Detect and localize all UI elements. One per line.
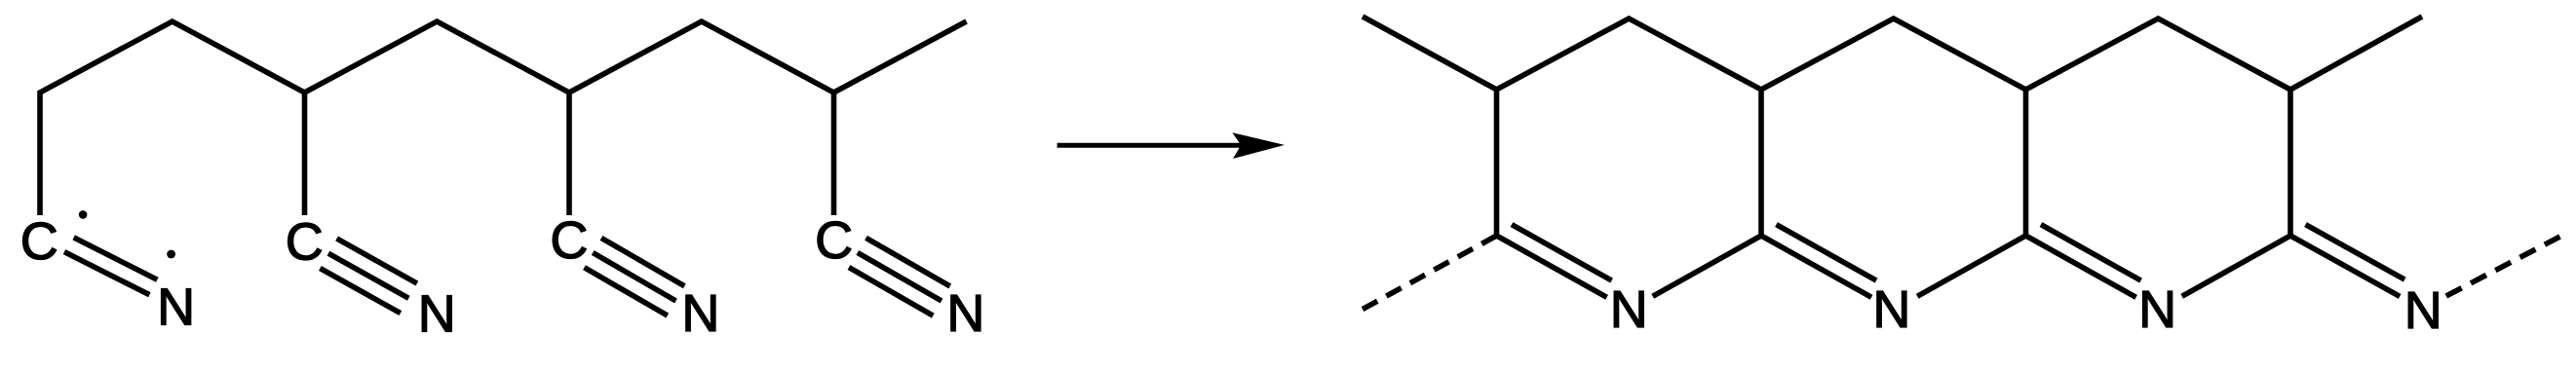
C2#N2 triple bond xyxy=(320,239,417,314)
ring verticals xyxy=(1497,90,2291,236)
C3#N3 triple bond xyxy=(585,238,685,315)
svg-text:C: C xyxy=(20,212,58,271)
arrow xyxy=(1057,132,1285,159)
svg-text:N: N xyxy=(1872,280,1910,339)
svg-text:N: N xyxy=(2404,281,2442,340)
ring3 N-C single xyxy=(2182,236,2290,296)
svg-text:N: N xyxy=(1610,280,1648,339)
radical dots xyxy=(79,210,88,219)
ring3 C=N double xyxy=(2026,225,2141,298)
svg-text:N: N xyxy=(2138,280,2176,339)
atom labels xyxy=(20,211,2442,343)
left dashed bond xyxy=(1363,236,1497,310)
ring2 C=N double xyxy=(1761,225,1876,298)
left backbone xyxy=(40,21,967,215)
svg-text:C: C xyxy=(550,211,588,270)
terminal C=N double xyxy=(2290,225,2404,297)
svg-text:N: N xyxy=(946,284,984,343)
ring2 N-C single xyxy=(1917,236,2025,296)
svg-text:N: N xyxy=(418,285,456,344)
C4#N4 triple bond xyxy=(849,238,950,315)
right structure top zigzag with methyls xyxy=(1363,17,2422,90)
svg-text:C: C xyxy=(815,211,853,270)
C1=N1 double bond xyxy=(64,238,157,295)
svg-text:N: N xyxy=(681,284,719,343)
ring1 N-C single xyxy=(1653,236,1761,296)
svg-text:C: C xyxy=(286,213,324,272)
right dashed bond xyxy=(2446,237,2560,296)
ring1 C=N double xyxy=(1497,225,1612,298)
svg-text:N: N xyxy=(157,278,195,337)
